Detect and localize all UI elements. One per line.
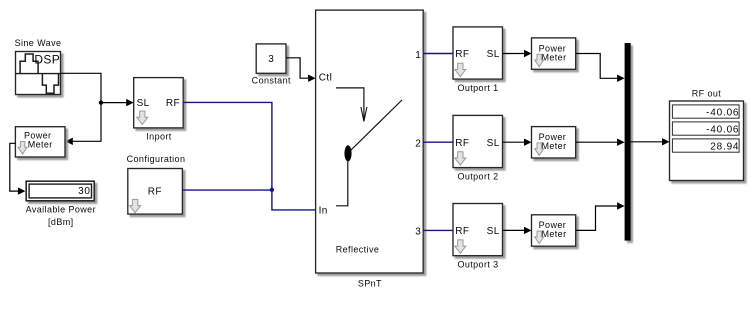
svg-text:SL: SL [487,226,500,237]
svg-text:Constant: Constant [252,75,291,85]
block Outport 1 [453,27,503,79]
block Inport [134,78,184,128]
svg-text:RF: RF [455,226,469,237]
svg-text:Reflective: Reflective [336,245,380,255]
block SPnT [316,10,424,273]
svg-text:2: 2 [415,139,421,150]
svg-text:Meter: Meter [541,229,566,239]
mux bar [625,43,631,241]
wire SPnT out3 to Outport 3 (navy) [423,229,453,231]
block Outport 3 [453,204,503,256]
block Configuration [128,169,183,215]
svg-text:RF: RF [148,186,162,197]
svg-text:30: 30 [78,186,91,197]
block Power Meter 1 [532,38,576,69]
svg-text:Outport 1: Outport 1 [457,83,498,93]
wire Inport RF to junction (navy) [183,102,272,189]
svg-text:RF out: RF out [692,89,722,99]
svg-text:SL: SL [487,138,500,149]
SPnT switch control arrow [336,88,367,122]
svg-text:Sine Wave: Sine Wave [15,38,62,48]
svg-text:Configuration: Configuration [127,154,186,164]
wire SPnT out1 to Outport 1 (navy) [423,53,453,55]
svg-text:Available Power: Available Power [26,205,96,215]
svg-text:Meter: Meter [541,141,566,151]
wire SPnT out2 to Outport 2 (navy) [423,141,453,143]
svg-text:Ctl: Ctl [319,72,332,83]
wire Power Meter 1 to Mux [576,54,625,83]
svg-text:3: 3 [268,54,274,65]
svg-text:RF: RF [455,138,469,149]
svg-text:In: In [319,206,328,217]
display Available Power [26,181,94,201]
svg-text:[dBm]: [dBm] [48,217,74,227]
svg-text:Meter: Meter [28,140,53,150]
block Power Meter left [15,127,65,157]
wire Constant to SPnT Ctl [286,58,316,82]
label Available Power [dBm] [26,205,96,228]
wire Outport 1 SL to Power Meter 1 [503,50,532,57]
SPnT pole to In line [336,158,348,206]
svg-text:SL: SL [487,49,500,60]
svg-text:Inport: Inport [146,131,172,141]
SPnT switch pole dot [344,145,351,161]
block Constant [256,44,286,73]
wire Configuration RF to junction (navy) [182,189,272,191]
block Power Meter 2 [532,127,576,158]
display RF out [670,101,744,181]
svg-text:28.94: 28.94 [710,141,739,152]
wire Outport 3 SL to Power Meter 3 [503,227,532,234]
svg-text:RF: RF [455,49,469,60]
block Sine Wave [16,52,61,95]
wire Mux to RF out display [631,138,670,145]
svg-text:Outport 2: Outport 2 [457,172,498,182]
block Outport 2 [453,115,503,167]
wire Sine Wave output to junction [61,73,102,102]
wire junction to Inport SL [101,99,134,106]
svg-text:RF: RF [166,98,180,109]
svg-text:1: 1 [415,50,421,61]
svg-text:-40.06: -40.06 [706,124,739,135]
svg-text:Meter: Meter [541,52,566,62]
wire Power Meter 3 to Mux [576,202,625,230]
wire junction down to Power Meter [65,103,101,145]
svg-text:SPnT: SPnT [358,279,382,289]
SPnT switch arm [351,100,403,151]
svg-text:-40.06: -40.06 [706,107,739,118]
svg-text:DSP: DSP [34,53,60,67]
wire Power Meter 2 to Mux [576,139,625,146]
svg-text:3: 3 [415,227,421,238]
junction dot [99,100,103,104]
wire Power Meter to display [10,143,26,195]
svg-text:SL: SL [137,98,150,109]
wire Outport 2 SL to Power Meter 2 [503,139,532,146]
block Power Meter 3 [532,215,576,246]
junction dot navy [270,188,274,192]
svg-text:Outport 3: Outport 3 [457,260,498,270]
wire junction to SPnT In (navy) [272,190,316,210]
